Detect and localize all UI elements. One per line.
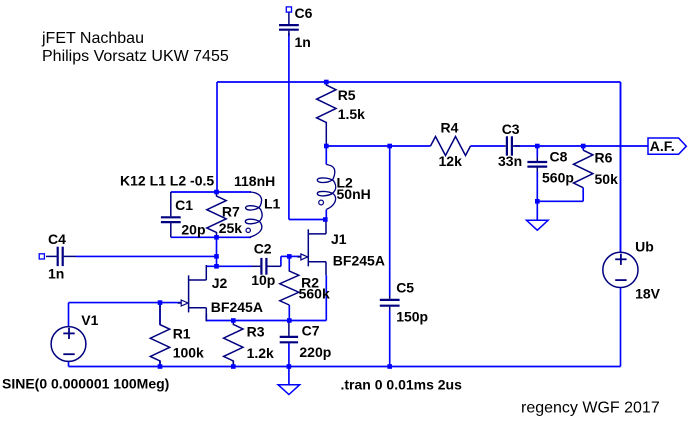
wire C3 to A.F. flag bbox=[515, 145, 649, 147]
svg-text:50nH: 50nH bbox=[337, 186, 371, 202]
wire R6 bottom lead bbox=[582, 188, 584, 202]
svg-text:BF245A: BF245A bbox=[333, 253, 385, 269]
value 1.2k of R3 bbox=[247, 345, 274, 361]
svg-text:1n: 1n bbox=[48, 265, 64, 281]
wire C2 bend to gate node bbox=[281, 255, 289, 257]
value 220p of C7 bbox=[299, 344, 331, 360]
junction R5 bottom node bbox=[324, 144, 329, 149]
comment regency WGF 2017 bbox=[521, 399, 660, 416]
wire R2 top lead bbox=[288, 256, 290, 269]
model BF245A of J1 bbox=[333, 253, 385, 269]
capacitor C1 bbox=[161, 192, 181, 237]
wire C2 right bend up bbox=[280, 256, 282, 266]
value 150p of C5 bbox=[396, 309, 428, 325]
junction tank top bbox=[214, 190, 219, 195]
value 25k of R7 bbox=[219, 220, 243, 236]
svg-text:J1: J1 bbox=[331, 231, 347, 247]
wire C6 branch vertical bbox=[288, 33, 290, 220]
svg-text:R1: R1 bbox=[173, 326, 191, 342]
label C3 bbox=[502, 121, 520, 137]
wire J2 source to stage rail bbox=[205, 314, 207, 321]
wire tank top right bbox=[217, 191, 252, 193]
svg-text:1.2k: 1.2k bbox=[247, 345, 274, 361]
junction R3 bottom on ground rail bbox=[231, 364, 236, 369]
svg-text:C6: C6 bbox=[295, 5, 313, 21]
resistor R5 bbox=[317, 82, 336, 146]
wire C4 input line bbox=[76, 255, 217, 257]
svg-text:R5: R5 bbox=[338, 87, 356, 103]
wire C7 bottom lead bbox=[288, 344, 290, 367]
label C2 bbox=[254, 240, 272, 256]
ground below C7 bbox=[278, 385, 300, 395]
wire C8 ground lead bbox=[536, 201, 538, 220]
svg-text:50k: 50k bbox=[595, 171, 619, 187]
junction C8 bottom / R6 bottom / ground bbox=[535, 199, 540, 204]
svg-text:20p: 20p bbox=[181, 222, 205, 238]
spice directive SINE source bbox=[2, 376, 169, 392]
svg-text:560p: 560p bbox=[542, 170, 574, 186]
wire R1 top lead bbox=[159, 303, 161, 325]
ground symbol below C8 bbox=[527, 220, 549, 230]
resistor R3 bbox=[224, 321, 243, 367]
svg-text:C2: C2 bbox=[254, 240, 272, 256]
junction C5 tap bbox=[387, 144, 392, 149]
junction tank bottom bbox=[214, 235, 219, 240]
junction R3 top on stage rail bbox=[231, 318, 236, 323]
svg-text:1.5k: 1.5k bbox=[338, 106, 365, 122]
wire C5 upper lead bbox=[389, 146, 391, 296]
wire right supply rail upper bbox=[620, 82, 622, 252]
capacitor C5 bbox=[380, 296, 400, 311]
value 20p of C1 bbox=[181, 222, 205, 238]
svg-text:Ub: Ub bbox=[635, 238, 654, 254]
wire L2 top lead bbox=[325, 146, 327, 165]
comment title line 1 bbox=[41, 30, 144, 47]
wire J1 source down bbox=[325, 275, 327, 320]
wire stage rail bbox=[206, 320, 326, 322]
resistor R2 bbox=[280, 270, 299, 306]
svg-text:L1: L1 bbox=[264, 196, 281, 212]
wire left drop from top bus to tank bbox=[216, 82, 218, 192]
label R2 bbox=[301, 275, 319, 291]
capacitor C2 bbox=[252, 258, 281, 275]
value 1.5k of R5 bbox=[338, 106, 365, 122]
capacitor C6 bbox=[279, 12, 299, 36]
model BF245A of J2 bbox=[211, 299, 263, 315]
output flag A.F. bbox=[648, 138, 686, 154]
svg-text:33n: 33n bbox=[498, 153, 522, 169]
svg-text:V1: V1 bbox=[81, 312, 98, 328]
svg-text:SINE(0 0.000001 100Meg): SINE(0 0.000001 100Meg) bbox=[2, 376, 169, 392]
resistor R7 bbox=[207, 192, 226, 237]
capacitor C8 bbox=[527, 157, 547, 172]
value 10p of C2 bbox=[251, 272, 275, 288]
wire R3 bottom lead bbox=[232, 361, 234, 367]
label R5 bbox=[338, 87, 356, 103]
capacitor C4 bbox=[46, 247, 76, 266]
svg-text:C3: C3 bbox=[502, 121, 520, 137]
wire gate node to J1 gate bbox=[289, 255, 301, 257]
voltage source Ub bbox=[603, 252, 638, 287]
junction R6 top bbox=[581, 144, 586, 149]
svg-text:25k: 25k bbox=[219, 220, 243, 236]
label C5 bbox=[396, 280, 414, 296]
wire R1 bottom lead bbox=[159, 361, 161, 367]
wire tank down to input node bbox=[216, 237, 218, 266]
wire R6 bottom horizontal bbox=[537, 200, 583, 202]
junction L2 bottom / J1 drain / C6 bbox=[323, 217, 328, 222]
wire bottom ground rail bbox=[69, 366, 621, 368]
svg-text:12k: 12k bbox=[439, 153, 463, 169]
wire C7 ground lead bbox=[288, 367, 290, 385]
capacitor C7 bbox=[280, 321, 298, 344]
wire R2 bottom to stage rail bbox=[288, 305, 290, 321]
svg-text:C4: C4 bbox=[48, 231, 66, 247]
junction C7 bottom / ground bbox=[287, 364, 292, 369]
svg-text:C8: C8 bbox=[550, 148, 568, 164]
label R3 bbox=[247, 324, 265, 340]
label R7 bbox=[222, 203, 240, 219]
value 12k of R4 bbox=[439, 153, 463, 169]
svg-text:BF245A: BF245A bbox=[211, 299, 263, 315]
voltage source V1 bbox=[51, 327, 86, 362]
wire Ub top lead bbox=[620, 82, 622, 252]
svg-text:R6: R6 bbox=[595, 150, 613, 166]
label L1 bbox=[264, 196, 281, 212]
spice directive K12 coupling bbox=[120, 173, 214, 189]
label R6 bbox=[595, 150, 613, 166]
value 33n of C3 bbox=[498, 153, 522, 169]
comment title line 2 bbox=[42, 48, 229, 65]
svg-text:100k: 100k bbox=[173, 345, 204, 361]
junction R5 top on bus bbox=[324, 80, 329, 85]
junction C5 bottom on ground rail bbox=[387, 364, 392, 369]
wire C5 lower lead bbox=[389, 311, 391, 367]
label L2 bbox=[337, 175, 354, 191]
wire L2 bottom lead bbox=[325, 210, 327, 220]
svg-text:.tran 0 0.01ms 2us: .tran 0 0.01ms 2us bbox=[341, 377, 463, 393]
wire V1 bottom lead bbox=[68, 361, 70, 366]
wire top bus bbox=[217, 81, 621, 83]
wire R4 line left segment bbox=[326, 145, 430, 147]
resistor R4 bbox=[431, 137, 471, 156]
svg-text:C5: C5 bbox=[396, 280, 414, 296]
svg-text:220p: 220p bbox=[299, 344, 331, 360]
junction R1 bottom on ground rail bbox=[158, 364, 163, 369]
JFET J2 bbox=[178, 265, 207, 321]
value 1n of C6 bbox=[295, 34, 311, 50]
label C6 bbox=[295, 5, 313, 21]
svg-text:K12 L1 L2 -0.5: K12 L1 L2 -0.5 bbox=[120, 173, 214, 189]
wire R4 to C3 bbox=[471, 145, 505, 147]
open pin of C6 bbox=[286, 7, 291, 12]
wire V1 to J2 gate bbox=[69, 302, 182, 304]
label Ub bbox=[635, 238, 654, 254]
svg-text:R7: R7 bbox=[222, 203, 240, 219]
svg-text:jFET Nachbau: jFET Nachbau bbox=[41, 30, 144, 47]
label C4 bbox=[48, 231, 66, 247]
wire right supply rail lower bbox=[620, 288, 622, 367]
svg-text:Philips Vorsatz UKW 7455: Philips Vorsatz UKW 7455 bbox=[42, 48, 229, 65]
value 18V of Ub bbox=[635, 285, 661, 301]
wire V1 top vertical bbox=[68, 303, 70, 327]
wire C6 branch horizontal to J1 drain bbox=[289, 219, 325, 221]
label A.F. bbox=[650, 138, 675, 154]
wire R6 top lead bbox=[582, 146, 584, 150]
label R4 bbox=[441, 120, 459, 136]
inductor L2 bbox=[317, 165, 335, 210]
svg-text:A.F.: A.F. bbox=[650, 138, 675, 154]
label R1 bbox=[173, 326, 191, 342]
svg-text:J2: J2 bbox=[212, 275, 228, 291]
value 50k of R6 bbox=[595, 171, 619, 187]
junction V1 / R1 / J2 gate bbox=[158, 300, 163, 305]
svg-text:10p: 10p bbox=[251, 272, 275, 288]
svg-text:1n: 1n bbox=[295, 34, 311, 50]
label C7 bbox=[302, 323, 320, 339]
value 1n of C4 bbox=[48, 265, 64, 281]
label J1 bbox=[331, 231, 347, 247]
label C8 bbox=[550, 148, 568, 164]
svg-text:560k: 560k bbox=[299, 286, 330, 302]
value 560p of C8 bbox=[542, 170, 574, 186]
value 560k of R2 bbox=[299, 286, 330, 302]
svg-text:R4: R4 bbox=[441, 120, 459, 136]
resistor R6 bbox=[574, 150, 593, 188]
inductor L1 bbox=[245, 192, 262, 237]
open pin of C4 bbox=[39, 254, 44, 259]
svg-text:C1: C1 bbox=[175, 197, 193, 213]
svg-text:18V: 18V bbox=[635, 285, 661, 301]
wire tank top left bbox=[171, 191, 217, 193]
wire tank bottom right bbox=[217, 236, 252, 238]
junction C4 input node bbox=[214, 254, 219, 259]
wire C8 top lead bbox=[536, 146, 538, 157]
junction C8 top bbox=[535, 144, 540, 149]
svg-text:150p: 150p bbox=[396, 309, 428, 325]
svg-text:C7: C7 bbox=[302, 323, 320, 339]
resistor R1 bbox=[150, 303, 169, 367]
junction J2 drain node bbox=[214, 264, 219, 269]
label V1 bbox=[81, 312, 98, 328]
wire tank bottom left bbox=[171, 236, 217, 238]
label C1 bbox=[175, 197, 193, 213]
capacitor C3 bbox=[504, 136, 520, 155]
value 100k of R1 bbox=[173, 345, 204, 361]
label J2 bbox=[212, 275, 228, 291]
wire C8 bottom lead bbox=[536, 172, 538, 202]
svg-text:118nH: 118nH bbox=[234, 173, 275, 189]
JFET J1 bbox=[297, 219, 326, 275]
wire J2 drain row bbox=[206, 265, 251, 267]
value 118nH of L1 bbox=[234, 173, 275, 189]
junction R2 bottom / C7 top bbox=[287, 318, 292, 323]
svg-text:R3: R3 bbox=[247, 324, 265, 340]
value 50nH of L2 bbox=[337, 186, 371, 202]
spice directive .tran bbox=[341, 377, 463, 393]
junction J1 gate / R2 / C2 bbox=[287, 254, 292, 259]
svg-text:regency WGF 2017: regency WGF 2017 bbox=[521, 399, 660, 416]
